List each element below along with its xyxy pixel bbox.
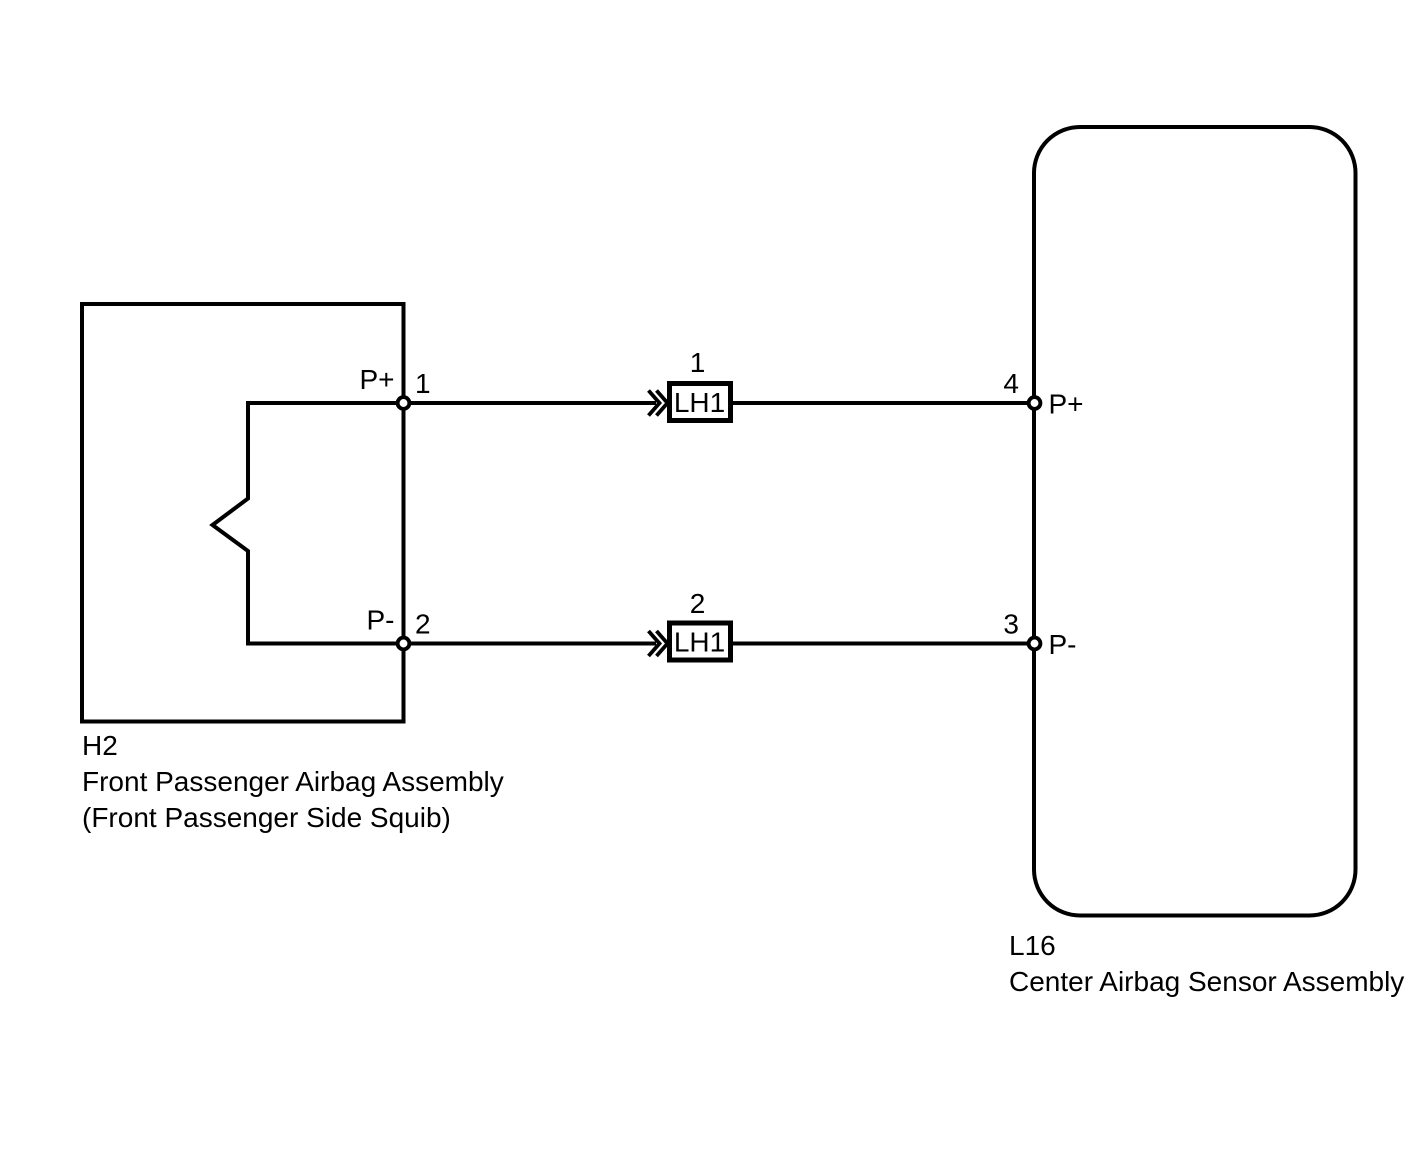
wire pin1 to connector LH1 row1 bbox=[404, 401, 657, 405]
pin 1 (H2 P+) bbox=[398, 397, 410, 409]
connector box LH1 row2 bbox=[670, 623, 731, 660]
pin 2 (H2 P-) bbox=[398, 638, 410, 650]
svg-text:2: 2 bbox=[690, 588, 706, 619]
svg-text:Center Airbag Sensor Assembly: Center Airbag Sensor Assembly bbox=[1009, 966, 1404, 997]
svg-text:H2: H2 bbox=[82, 730, 118, 761]
svg-text:1: 1 bbox=[415, 368, 431, 399]
pin 3 (L16 P-) bbox=[1029, 638, 1041, 650]
svg-text:4: 4 bbox=[1003, 368, 1019, 399]
svg-text:LH1: LH1 bbox=[674, 387, 725, 418]
connector chevrons row2 bbox=[649, 631, 668, 656]
svg-text:L16: L16 bbox=[1009, 930, 1056, 961]
connector chevrons row1 bbox=[649, 391, 668, 416]
component box H2 bbox=[82, 304, 404, 722]
svg-text:Front Passenger Airbag Assembl: Front Passenger Airbag Assembly bbox=[82, 766, 504, 797]
svg-text:P+: P+ bbox=[1049, 389, 1084, 420]
pin 4 (L16 P+) bbox=[1029, 397, 1041, 409]
connector box LH1 row1 bbox=[670, 384, 731, 421]
svg-text:3: 3 bbox=[1003, 609, 1019, 640]
svg-text:P+: P+ bbox=[359, 364, 394, 395]
svg-text:P-: P- bbox=[367, 605, 395, 636]
svg-text:1: 1 bbox=[690, 347, 706, 378]
wire connector LH1 row1 to pin4 bbox=[733, 401, 1035, 405]
component box L16 (rounded) bbox=[1034, 127, 1356, 916]
svg-text:P-: P- bbox=[1049, 629, 1077, 660]
wire pin2 to connector LH1 row2 bbox=[404, 642, 657, 646]
wire connector LH1 row2 to pin3 bbox=[733, 642, 1035, 646]
svg-text:(Front Passenger Side Squib): (Front Passenger Side Squib) bbox=[82, 802, 451, 833]
svg-text:2: 2 bbox=[415, 609, 431, 640]
svg-text:LH1: LH1 bbox=[674, 627, 725, 658]
squib element inside H2 bbox=[213, 403, 404, 644]
